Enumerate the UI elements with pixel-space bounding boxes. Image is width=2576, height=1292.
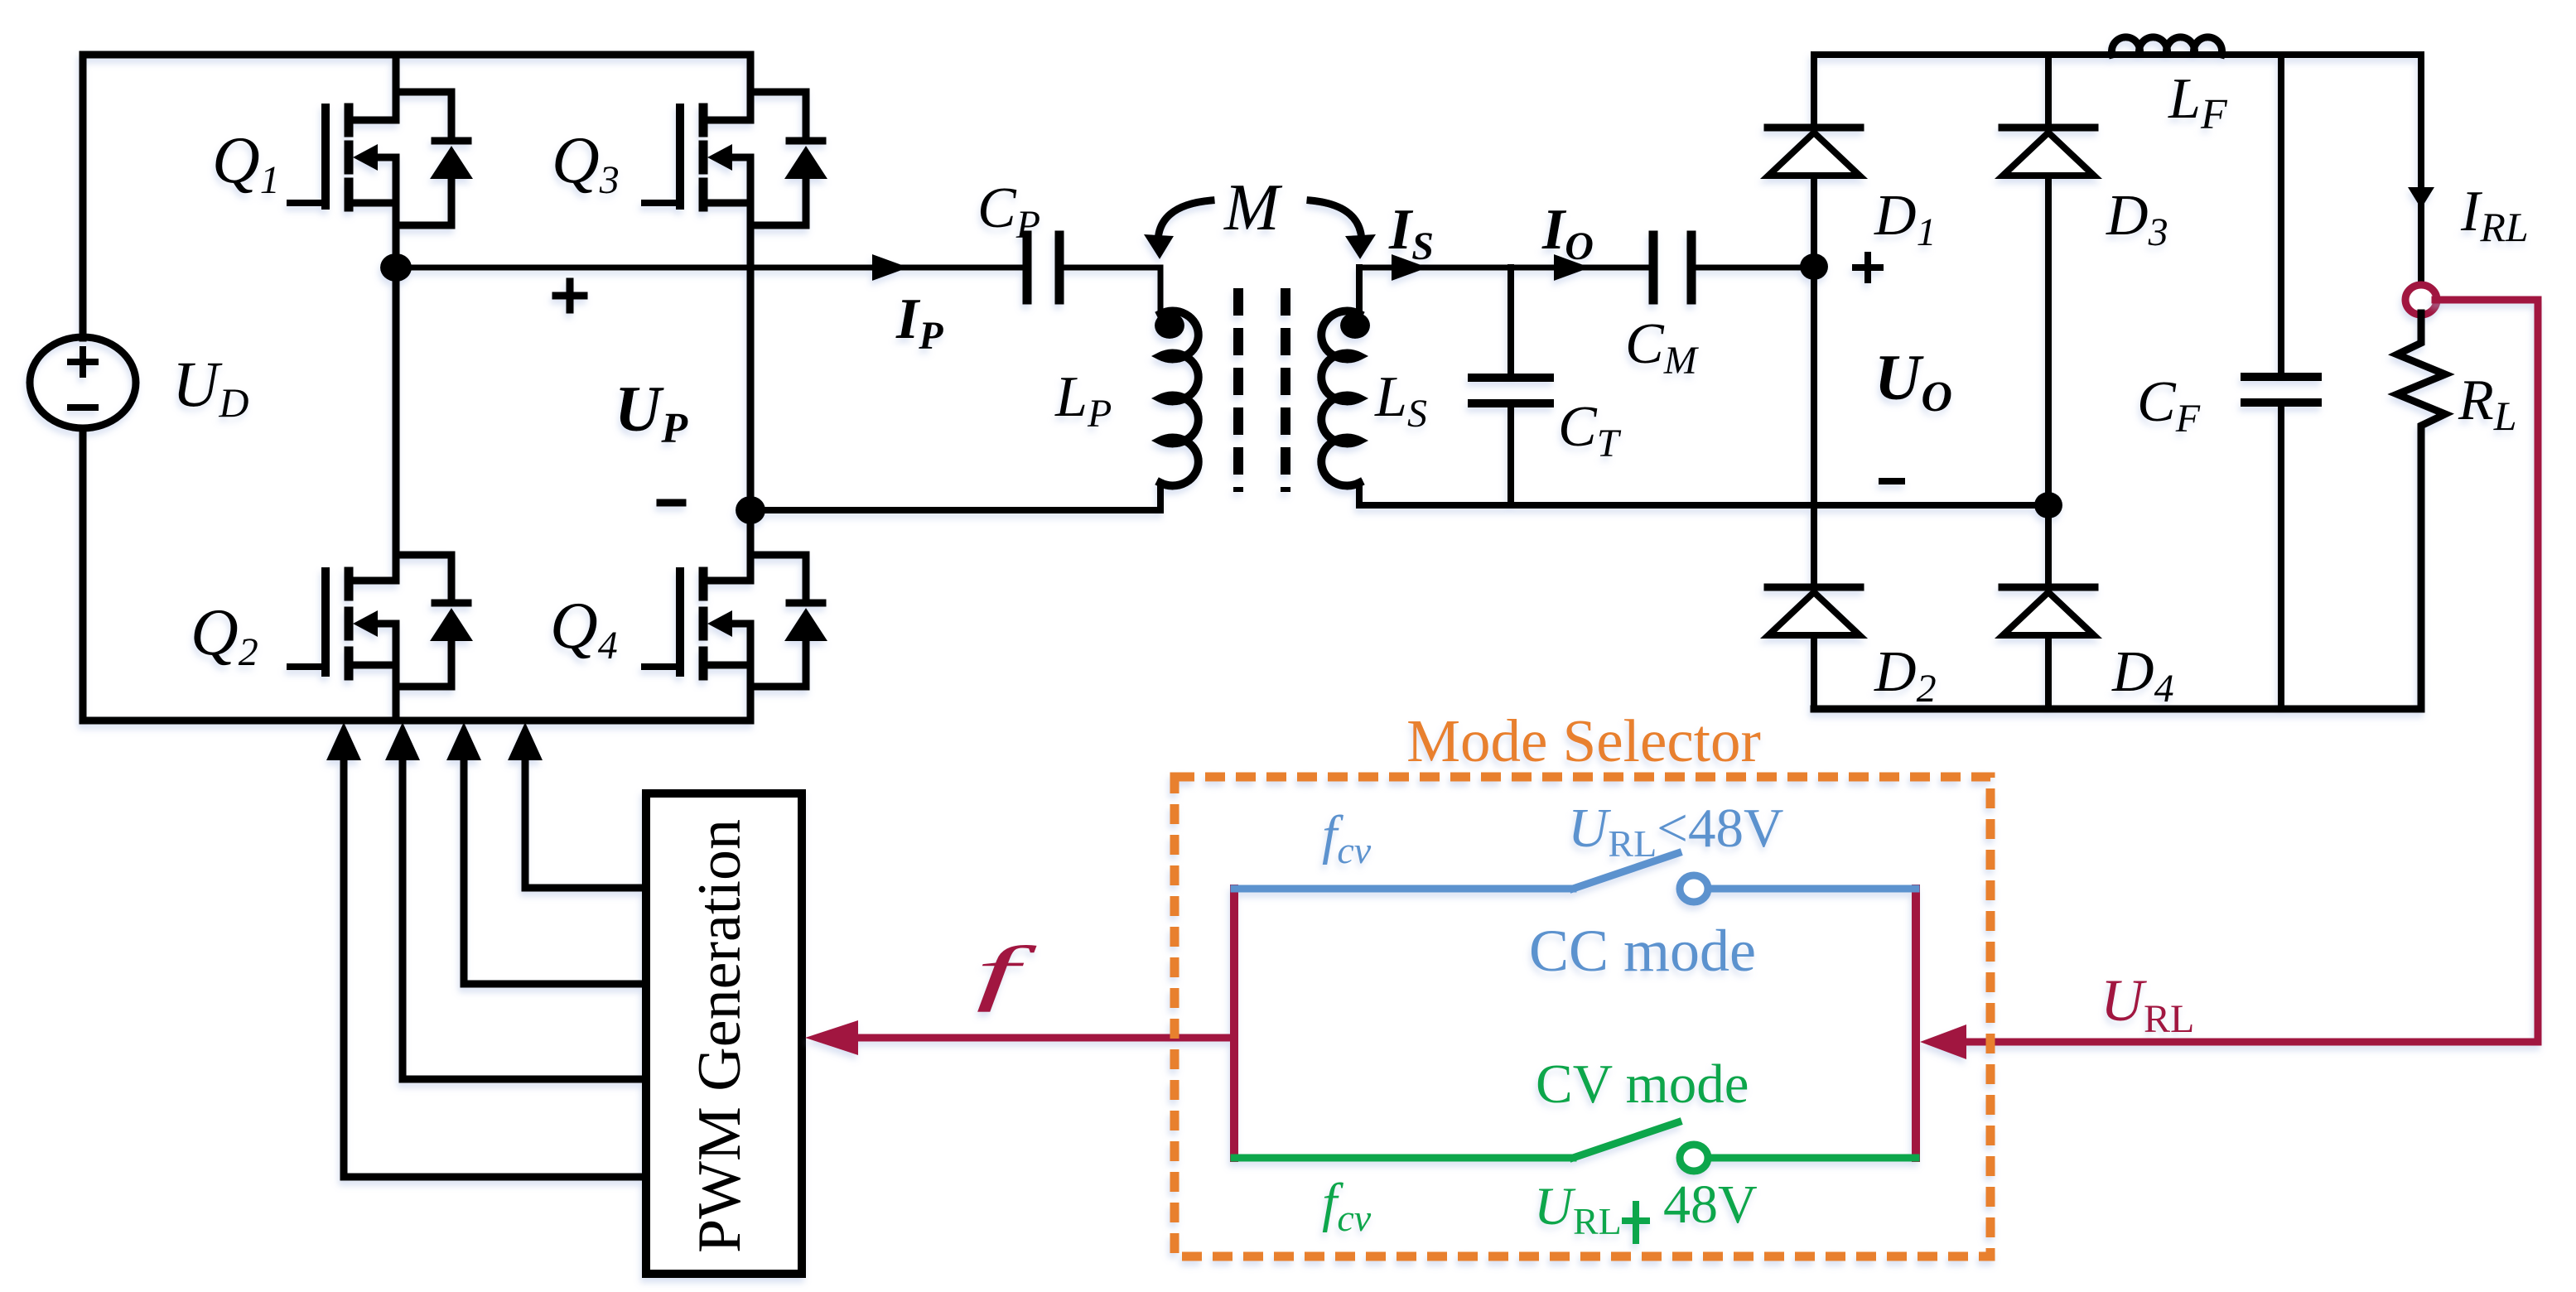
transistor Q2 body arrow [353, 610, 378, 637]
inductor LS coil [1321, 311, 1359, 486]
label - of UO [1882, 478, 1902, 485]
switch contact circle CV [1680, 1145, 1708, 1171]
transformer core dashed line 1 [1233, 288, 1243, 492]
arrowhead IP on wire [872, 254, 909, 281]
capacitor CF [2245, 377, 2318, 403]
capacitor CM [1653, 235, 1691, 300]
wire: blue line right segment [1708, 885, 1916, 893]
resistor RL zigzag [2397, 313, 2445, 709]
wire: secondary bottom wire to rectifier - node [1359, 502, 2048, 509]
sense node ring (crimson) on load branch [2405, 285, 2437, 315]
wire: PWM gate drive line 1 [344, 759, 646, 1177]
wire: top rail of inverter [83, 51, 750, 59]
label + of UP [556, 282, 584, 310]
wire: CF branch bottom [2278, 406, 2284, 709]
transistor Q3 gate lead [644, 200, 680, 206]
transistor Q2 gate lead [290, 663, 326, 670]
arrowhead of gate drive line 3 [446, 722, 481, 760]
svg-text:URL<48V: URL<48V [1568, 798, 1783, 865]
svg-text:Mode Selector: Mode Selector [1406, 707, 1761, 774]
wire: D3 anode down through - node to D4 [2045, 176, 2052, 587]
polarity dot of LP [1155, 312, 1184, 339]
wire: green line right segment [1708, 1155, 1916, 1162]
node dot - output of rectifier [2034, 492, 2062, 518]
wire: bottom rail of inverter [83, 717, 750, 725]
transistor Q3 body diode [750, 92, 806, 225]
transistor Q1 body arrow [353, 144, 378, 171]
wire: crimson feedback from sense ring to URL line [1965, 300, 2538, 1042]
curved arrow right of M [1310, 200, 1362, 245]
wire: node A down to Q2 drain [393, 268, 400, 581]
wire: rectifier right leg top [2045, 55, 2052, 124]
wire: Q1 drain to top rail [393, 55, 400, 120]
transistor Q4 gate lead [644, 663, 680, 670]
capacitor CT [1472, 378, 1550, 403]
transistor Q4 body diode [750, 555, 806, 687]
wire: Q1 source down to node A [393, 203, 400, 268]
wire: PWM gate drive line 2 [403, 759, 646, 1079]
wire: crimson f line from mode selector to PWM block [856, 1034, 1234, 1042]
transistor Q1 gate lead [290, 200, 326, 206]
wire: Q3 source down to node B [747, 203, 755, 510]
arrowhead IRL [2408, 187, 2434, 209]
diode D2 [1768, 584, 1860, 591]
wire: rectifier bottom rail [1814, 706, 2421, 713]
svg-text:CV mode: CV mode [1536, 1053, 1749, 1115]
switch blade CV [1573, 1122, 1678, 1158]
wire: capacitor CT to secondary bottom wire [1507, 406, 1514, 505]
wire: top rail corner down to load [2418, 55, 2424, 283]
inductor LP coil [1160, 311, 1199, 486]
wire: D1 anode to + node and down to D2 [1811, 176, 1817, 587]
svg-text:PWM Generation: PWM Generation [686, 819, 754, 1253]
voltage source UD symbol [30, 337, 136, 428]
transistor Q1 body diode [396, 92, 451, 225]
wire: node B to LP bottom [750, 507, 1160, 513]
wire: left vertical from source UD to bottom rail [80, 428, 87, 721]
wire: node B down to Q4 drain [747, 510, 755, 581]
wire: capacitor CM to rectifier + node [1696, 265, 1814, 271]
transistor Q3 drain lead [707, 117, 750, 124]
node dot + output of rectifier [1800, 253, 1828, 280]
transistor Q2 channel stubs [345, 571, 354, 596]
transistor Q3 body arrow [707, 144, 732, 171]
wire: D4 to bottom rail [2045, 635, 2052, 709]
transistor Q1 drain lead [353, 117, 396, 124]
wire: Q4 source to bottom rail [747, 665, 755, 721]
arrowhead URL into mode selector [1920, 1024, 1966, 1059]
node A junction dot (+ output of bridge) [380, 253, 412, 282]
transistor Q4 gate bar [676, 571, 684, 673]
wire: crimson left bus of mode selector [1230, 889, 1238, 1158]
wire: LS top corner [1356, 268, 1363, 314]
diode D4 [2002, 584, 2095, 591]
wire: LS bottom to secondary bottom wire [1356, 483, 1363, 505]
switch blade CC [1573, 853, 1678, 889]
wire: LS to capacitor CM [1359, 265, 1649, 271]
wire: Q2 source to bottom rail [393, 665, 400, 721]
transistor Q4 channel stubs [699, 571, 708, 596]
wire: Q3 drain to top rail [747, 55, 755, 120]
arrowhead f into PWM block [805, 1020, 858, 1055]
label + of UO [1855, 255, 1880, 280]
svg-text:CC mode: CC mode [1529, 918, 1756, 984]
transistor Q3 gate bar [676, 108, 684, 205]
wire: left vertical from top rail to source UD [80, 55, 87, 338]
svg-text:48V: 48V [1663, 1174, 1758, 1235]
arrowhead IS on wire [1392, 254, 1428, 281]
wire: node A to capacitor CP [396, 265, 1023, 271]
transistor Q2 body diode [396, 555, 451, 687]
arrowhead of gate drive line 4 [508, 722, 543, 760]
arrowhead of gate drive line 2 [385, 722, 420, 760]
wire: D2 to bottom rail [1811, 635, 1817, 709]
transistor Q1 gate bar [321, 108, 330, 205]
transistor Q2 drain lead [353, 577, 396, 585]
diode D3 [2002, 124, 2095, 132]
inductor LF coil [2112, 37, 2222, 55]
wire: crimson right bus of mode selector [1912, 889, 1920, 1158]
wire: green fcv line left segment [1234, 1155, 1573, 1162]
transistor Q3 source lead [707, 200, 750, 207]
node B junction dot (- output of bridge) [736, 496, 765, 524]
switch contact circle CC [1680, 875, 1708, 902]
transistor Q2 gate bar [321, 571, 330, 673]
transformer core dashed line 2 [1281, 288, 1290, 492]
transistor Q2 source lead [353, 662, 396, 669]
label - of UP [660, 499, 683, 507]
transistor Q4 body arrow [707, 610, 732, 637]
wire: PWM gate drive line 3 [464, 759, 646, 984]
wire: CF branch top [2278, 55, 2284, 374]
transistor Q3 channel stubs [699, 108, 708, 133]
transistor Q1 source lead [353, 200, 396, 207]
wire: capacitor CP to coil LP [1064, 268, 1160, 315]
transistor Q4 drain lead [707, 577, 750, 585]
wire: junction to capacitor CT [1507, 268, 1514, 375]
wire: PWM gate drive line 4 [525, 759, 646, 888]
wire: LP bottom to primary bottom wire [1157, 483, 1164, 510]
polarity dot of LS [1340, 312, 1370, 339]
arrowhead IO on wire [1554, 254, 1590, 281]
PWM Generation block [646, 793, 802, 1274]
diode D1 [1768, 124, 1860, 132]
arrowhead of gate drive line 1 [326, 722, 361, 760]
curved arrow left of M [1158, 200, 1211, 245]
transistor Q4 source lead [707, 662, 750, 669]
wire: rectifier left leg top [1811, 55, 1817, 124]
wire: rectifier top rail [1814, 51, 2421, 58]
capacitor CP [1027, 235, 1059, 300]
Mode Selector dashed box [1175, 777, 1990, 1256]
svg-text:M: M [1223, 171, 1283, 244]
transistor Q1 channel stubs [345, 108, 354, 133]
wire: blue fcv line left segment [1234, 885, 1573, 893]
